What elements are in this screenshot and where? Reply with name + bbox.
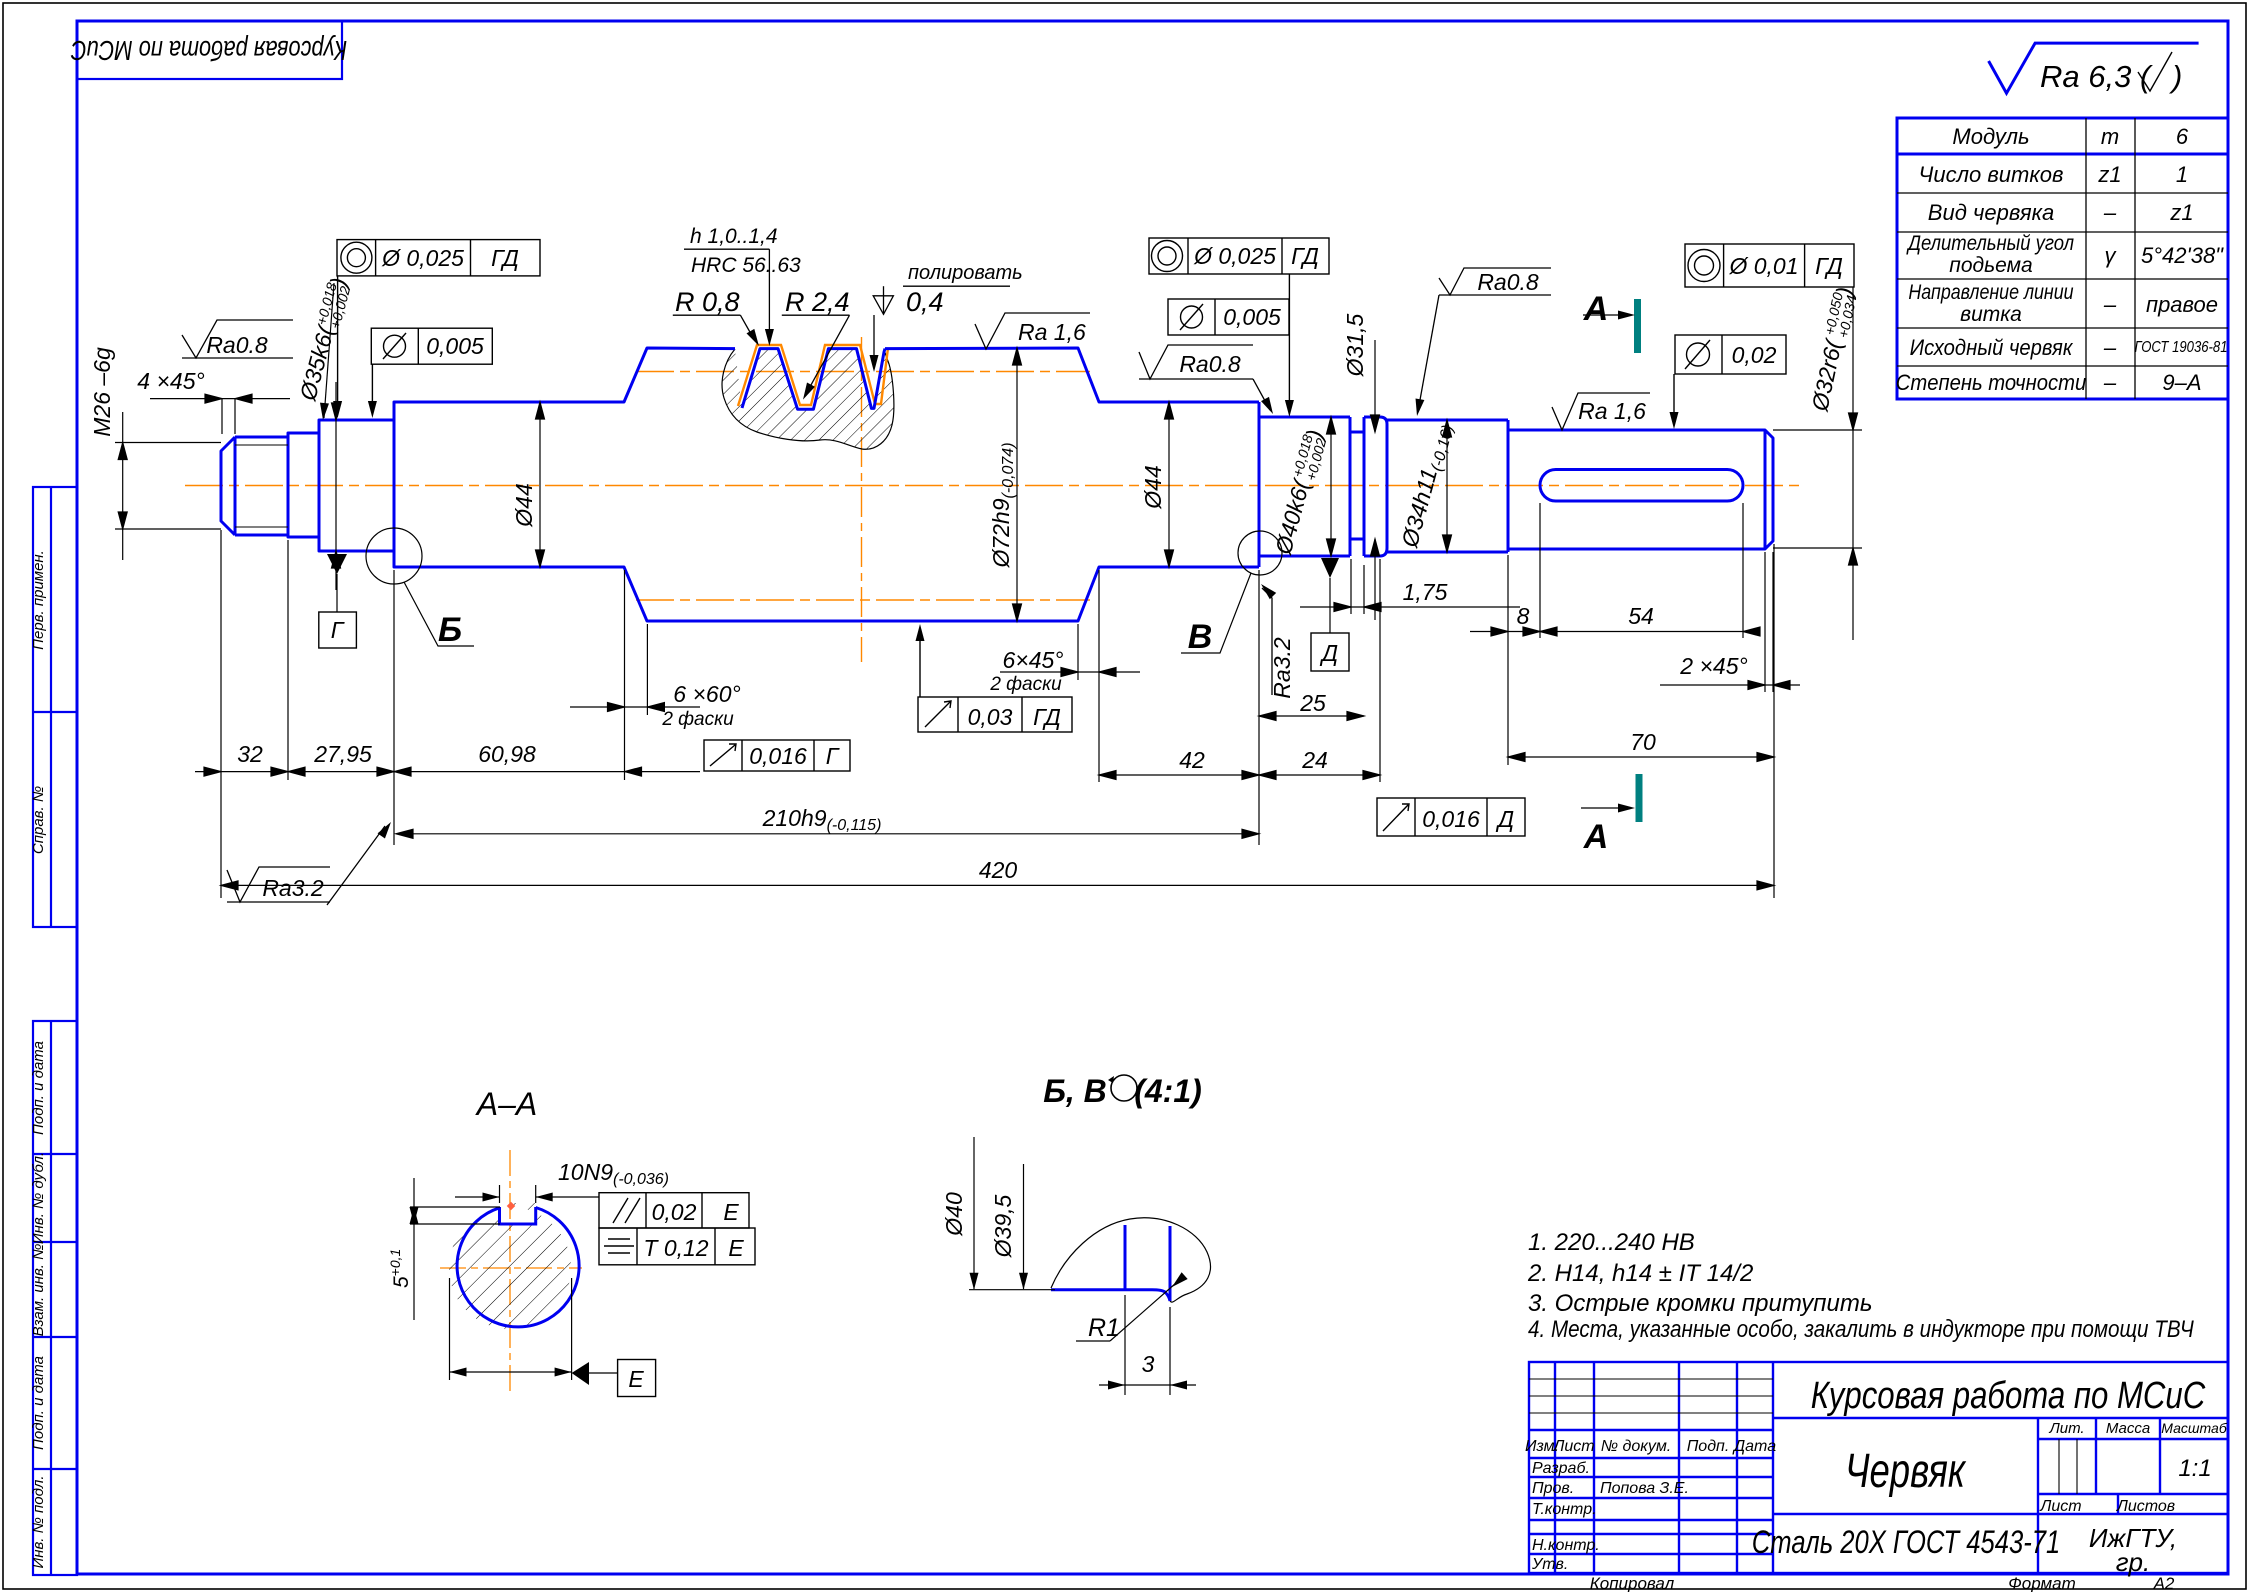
svg-text:2 фаски: 2 фаски	[661, 709, 734, 730]
thread callout h 1,0..1,4 / HRC 56..63	[684, 248, 769, 250]
svg-text:R1: R1	[1088, 1314, 1120, 1342]
worm thread profile	[742, 349, 885, 410]
svg-text:Ø40: Ø40	[941, 1192, 967, 1237]
svg-text:70: 70	[1630, 729, 1656, 755]
dia 44 #2 dim	[1168, 402, 1170, 567]
svg-text:А: А	[1583, 290, 1609, 328]
title block	[1525, 1362, 2228, 1592]
R 0,8 callout	[673, 314, 741, 316]
Ra0.8 #3 on 34h11	[1418, 268, 1551, 411]
dim 3	[1099, 1295, 1196, 1395]
svg-text:Ra 1,6: Ra 1,6	[1018, 319, 1086, 345]
svg-text:0,005: 0,005	[1223, 304, 1281, 330]
Ra0.8 #2 on 40k6	[1139, 345, 1270, 410]
svg-text:В: В	[1188, 618, 1213, 656]
dim row: 6x45 right chamfer at y=672	[1000, 671, 1140, 673]
dia 72h9 dim	[1016, 348, 1018, 621]
svg-text:–: –	[2103, 200, 2117, 225]
svg-text:Б: Б	[438, 611, 462, 649]
svg-text:z1: z1	[2097, 162, 2121, 187]
svg-text:Направление линии: Направление линии	[1908, 281, 2073, 305]
left margin stamp boxes	[33, 21, 342, 1575]
thread M26 end with chamfers	[221, 437, 235, 535]
stamp box labels	[30, 34, 347, 1568]
svg-text:0,03: 0,03	[968, 704, 1013, 730]
detail circle V (В)	[1238, 531, 1282, 575]
svg-text:правое: правое	[2146, 292, 2218, 317]
svg-text:Т 0,12: Т 0,12	[643, 1235, 708, 1261]
0,03 GD frame	[918, 628, 1072, 732]
detail circle B (Б)	[366, 528, 422, 584]
svg-text:Модуль: Модуль	[1952, 124, 2029, 149]
svg-text:–: –	[2103, 292, 2117, 317]
svg-text:1: 1	[2176, 162, 2188, 187]
svg-text:Взам. инв. №: Взам. инв. №	[30, 1244, 47, 1337]
svg-text:3: 3	[1142, 1351, 1155, 1377]
dim row: 210h9 at y=833.8	[396, 833, 1259, 835]
main worm shaft view	[185, 337, 1800, 662]
dia 32r6 dim at right	[1773, 429, 1862, 431]
svg-text:Степень точности: Степень точности	[1896, 371, 2087, 395]
svg-text:0,02: 0,02	[1732, 342, 1777, 368]
dim row: 6x60 at y=707	[570, 706, 700, 708]
svg-text:Г: Г	[331, 617, 345, 643]
svg-text:Т.контр.: Т.контр.	[1532, 1501, 1597, 1518]
svg-text:Б, В: Б, В	[1043, 1073, 1107, 1109]
tolerance frames	[599, 1193, 755, 1265]
svg-text:Ra3.2: Ra3.2	[262, 875, 324, 901]
svg-text:Лит.: Лит.	[2048, 1420, 2084, 1437]
svg-text:1. 220...240 НВ: 1. 220...240 НВ	[1528, 1229, 1695, 1256]
svg-text:Ø 0,01: Ø 0,01	[1728, 253, 1798, 279]
svg-text:Д: Д	[1319, 640, 1338, 666]
svg-text:Инв. № подл.: Инв. № подл.	[30, 1475, 47, 1568]
centerlines	[509, 1150, 511, 1392]
svg-text:Утв.: Утв.	[1531, 1556, 1568, 1573]
svg-text:Ra3.2: Ra3.2	[1269, 637, 1295, 699]
section view A-A	[387, 1086, 755, 1397]
dim row: 420 at y=885.4	[221, 884, 1774, 886]
top contour left part	[235, 348, 735, 437]
svg-text:Разраб.: Разраб.	[1532, 1460, 1590, 1477]
svg-text:Попова З.Е.: Попова З.Е.	[1600, 1480, 1689, 1497]
top-left reversed designation box	[77, 21, 342, 79]
dimension lines and arrows	[115, 287, 1862, 898]
svg-text:–: –	[2103, 335, 2117, 360]
parallel frame 0,02 on keyway	[1674, 335, 1786, 425]
svg-text:6: 6	[2176, 124, 2189, 149]
svg-text:27,95: 27,95	[313, 741, 372, 767]
svg-text:А–А: А–А	[475, 1086, 537, 1122]
svg-text:ГД: ГД	[1815, 253, 1843, 279]
svg-text:24: 24	[1301, 747, 1328, 773]
svg-text:ГД: ГД	[1033, 704, 1061, 730]
hardened-zone orange outline over thread profile	[738, 345, 888, 406]
svg-text:Масштаб: Масштаб	[2161, 1420, 2228, 1436]
svg-text:Ra 6,3 (: Ra 6,3 (	[2040, 59, 2153, 94]
Ra 1.6 on 72	[975, 313, 1090, 349]
svg-text:Ø 0,025: Ø 0,025	[381, 245, 464, 271]
svg-text:ГД: ГД	[1291, 243, 1319, 269]
detail bubble outline	[1051, 1218, 1210, 1302]
svg-text:3. Острые кромки притупить: 3. Острые кромки притупить	[1528, 1290, 1872, 1317]
M26 dim at left	[115, 442, 221, 444]
svg-text:m: m	[2101, 124, 2119, 149]
left margin stamp group 1: Перв. примен. / Справ. №	[33, 487, 77, 927]
cylindricity frame 0,005 #1	[371, 328, 492, 414]
svg-text:h 1,0..1,4: h 1,0..1,4	[690, 225, 778, 248]
4x45 chamfer dim at y=398.6	[221, 399, 223, 434]
svg-text:Ø39,5: Ø39,5	[990, 1194, 1016, 1258]
dia 31,5 dim (outside arrows)	[1374, 340, 1376, 432]
svg-text:ГОСТ 19036-81: ГОСТ 19036-81	[2134, 339, 2227, 356]
svg-text:А: А	[1583, 818, 1609, 856]
34h11 section	[1387, 419, 1508, 422]
svg-text:54: 54	[1628, 603, 1654, 629]
thread section hatch	[722, 349, 894, 449]
break line (thin) around thread local section	[722, 349, 894, 449]
svg-text:Перв. примен.: Перв. примен.	[30, 550, 47, 650]
svg-text:Е: Е	[728, 1235, 744, 1261]
svg-text:R 0,8: R 0,8	[675, 287, 740, 317]
svg-text:Ø44: Ø44	[511, 483, 537, 527]
datum D triangle under 40k6	[1321, 558, 1339, 578]
collar with rounded right corners	[1364, 417, 1387, 556]
svg-text:Делительный угол: Делительный угол	[1906, 232, 2074, 255]
general roughness mark Ra 6,3	[1989, 43, 2199, 94]
0,016 G frame	[704, 740, 850, 771]
svg-text:ГД: ГД	[491, 245, 519, 271]
svg-text:подьема: подьема	[1949, 254, 2032, 277]
svg-text:Ra0.8: Ra0.8	[206, 332, 268, 358]
dim row: 1,75 at y=607	[1300, 606, 1520, 608]
svg-text:–: –	[2103, 370, 2117, 395]
svg-text:Копировал: Копировал	[1590, 1574, 1675, 1592]
extension lines below shaft	[220, 530, 222, 898]
Ra3.2 bottom left with leader	[227, 826, 385, 905]
svg-text:Сталь 20Х ГОСТ 4543-71: Сталь 20Х ГОСТ 4543-71	[1752, 1525, 2060, 1560]
dia 39,5 dim	[1023, 1164, 1025, 1289]
Ra 6,3 corner mark	[1989, 43, 2199, 93]
svg-text:0,4: 0,4	[906, 287, 944, 317]
svg-text:Дата: Дата	[1732, 1438, 1776, 1455]
top contour right part	[885, 348, 1259, 402]
svg-text:Вид червяка: Вид червяка	[1928, 200, 2054, 225]
dims: 5+0.1 left	[410, 1178, 500, 1320]
thread root thin lines	[235, 444, 288, 446]
left margin stamp group 2	[33, 1021, 77, 1575]
svg-text:Червяк: Червяк	[1845, 1444, 1967, 1498]
svg-text:Справ. №: Справ. №	[30, 786, 47, 854]
svg-text:Д: Д	[1495, 806, 1514, 832]
position tolerance frame 0,025 GD #1	[337, 240, 540, 414]
detail view B,V (4:1)	[941, 1073, 1210, 1395]
svg-text:0,005: 0,005	[426, 333, 484, 359]
svg-text:Исходный червяк: Исходный червяк	[1910, 336, 2074, 360]
worm parameter table	[1896, 118, 2228, 399]
svg-text:420: 420	[979, 857, 1018, 883]
svg-text:М26 –6g: М26 –6g	[89, 347, 115, 437]
svg-text:1,75: 1,75	[1403, 579, 1448, 605]
shaft outline	[221, 348, 1773, 621]
dia 40 dim	[973, 1137, 975, 1289]
dim row: 8 / 54 at y=631	[1470, 631, 1743, 633]
worm pitch centerlines	[636, 371, 1090, 373]
svg-text:полировать: полировать	[908, 262, 1023, 284]
svg-text:Курсовая работа по МСиС: Курсовая работа по МСиС	[70, 34, 347, 65]
dim row: 70 at y=757	[1508, 756, 1774, 758]
svg-text:Подп. и дата: Подп. и дата	[30, 1041, 47, 1135]
Ra3.2 rotated near groove	[1262, 588, 1272, 695]
svg-text:0,016: 0,016	[749, 743, 807, 769]
dia 40k6 dim	[1330, 417, 1332, 556]
thin extension to dia dims	[969, 1289, 1055, 1291]
dim row: 25 at y=716	[1259, 715, 1364, 717]
svg-text:гр.: гр.	[2116, 1547, 2151, 1577]
dia 34h11 dim	[1446, 420, 1448, 552]
svg-text:Ø44: Ø44	[1140, 465, 1166, 509]
svg-text:Ra0.8: Ra0.8	[1477, 269, 1539, 295]
svg-text:Ra0.8: Ra0.8	[1179, 351, 1241, 377]
R 2,4 callout	[782, 314, 850, 316]
svg-text:4. Места, указанные особо, за: 4. Места, указанные особо, закалить в ин…	[1528, 1316, 2195, 1343]
svg-text:9–А: 9–А	[2162, 370, 2201, 395]
svg-text:Е: Е	[628, 1366, 644, 1392]
svg-text:№ докум.: № докум.	[1601, 1438, 1671, 1455]
svg-text:А2: А2	[2153, 1574, 2175, 1592]
svg-text:Подп. и дата: Подп. и дата	[30, 1356, 47, 1450]
svg-text:Курсовая работа по МСиС: Курсовая работа по МСиС	[1811, 1375, 2206, 1417]
svg-text:8: 8	[1517, 603, 1530, 629]
svg-text:Лист: Лист	[1552, 1438, 1594, 1455]
svg-text:R 2,4: R 2,4	[785, 287, 850, 317]
dia 44 #1 dim	[539, 402, 541, 567]
svg-text:6×45°: 6×45°	[1002, 647, 1063, 673]
position frame 0,025 GD #2	[1149, 238, 1329, 413]
dim row: 42 / 24 at y=775	[1099, 774, 1380, 776]
svg-text:5°42'38": 5°42'38"	[2141, 243, 2224, 268]
datum G triangle under 35k6	[327, 554, 347, 574]
0,016 D frame bottom	[1377, 798, 1525, 836]
svg-text:32: 32	[237, 741, 263, 767]
svg-text:42: 42	[1179, 747, 1205, 773]
svg-text:(4:1): (4:1)	[1134, 1073, 1202, 1109]
svg-text:Листов: Листов	[2116, 1498, 2175, 1515]
svg-text:2 ×45°: 2 ×45°	[1679, 653, 1747, 679]
circle outline (blue) with slot gap	[457, 1208, 579, 1327]
position frame 0,01 GD right	[1685, 244, 1854, 287]
svg-text:Ø 0,025: Ø 0,025	[1193, 243, 1276, 269]
svg-text:Формат: Формат	[2008, 1574, 2076, 1592]
Ra 1.6 on output end	[1552, 393, 1650, 430]
svg-text:Число витков: Число витков	[1919, 162, 2064, 187]
svg-text:6 ×60°: 6 ×60°	[673, 681, 740, 707]
keyway width dim 10N9	[455, 1185, 599, 1203]
verticals between sections	[287, 433, 290, 537]
svg-text:Подп.: Подп.	[1687, 1438, 1730, 1455]
dimension value texts	[89, 275, 1861, 883]
bottom contour	[1259, 555, 1350, 558]
technical notes	[1527, 1229, 2195, 1342]
svg-text:Г: Г	[826, 743, 840, 769]
dim row: 32 / 27,95 / 60,98 at y=771.6	[195, 771, 700, 773]
svg-text:1:1: 1:1	[2178, 1455, 2211, 1482]
dia 35k6 dim (vertical line with outside arrows)	[335, 382, 337, 590]
svg-text:витка: витка	[1960, 303, 2022, 326]
vertical centerline of worm	[861, 337, 863, 662]
svg-text:0,016: 0,016	[1422, 806, 1480, 832]
svg-text:0,02: 0,02	[652, 1199, 697, 1225]
svg-text:Ra 1,6: Ra 1,6	[1578, 398, 1646, 424]
svg-text:Н.контр.: Н.контр.	[1532, 1537, 1600, 1554]
svg-text:Пров.: Пров.	[1532, 1480, 1574, 1497]
svg-text:25: 25	[1299, 690, 1326, 716]
svg-text:Ø31,5: Ø31,5	[1342, 313, 1368, 377]
tolerance frames, surface symbols, datum callouts	[182, 225, 1854, 905]
dim row: 2x45 at y=685	[1660, 684, 1800, 686]
svg-text:60,98: 60,98	[478, 741, 536, 767]
svg-text:2 фаски: 2 фаски	[989, 674, 1062, 695]
svg-text:Е: Е	[723, 1199, 739, 1225]
svg-text:z1: z1	[2169, 200, 2193, 225]
svg-text:4 ×45°: 4 ×45°	[137, 368, 204, 394]
keyway slot on output end	[1540, 470, 1743, 502]
bottom dim with datum E	[450, 1278, 572, 1380]
cylindricity frame 0,005 #2	[1168, 299, 1289, 335]
section mark A upper	[1634, 299, 1641, 353]
svg-text:2. Н14, h14 ± IT 14/2: 2. Н14, h14 ± IT 14/2	[1527, 1260, 1753, 1287]
svg-text:HRC 56..63: HRC 56..63	[691, 254, 801, 277]
svg-text:Лист: Лист	[2039, 1498, 2081, 1515]
output 32r6 with end chamfer	[1508, 430, 1773, 549]
blue geometry of detail	[1051, 1225, 1170, 1301]
svg-text:Инв. № дубл.: Инв. № дубл.	[30, 1152, 47, 1244]
surface finish Ra0.8 top-left	[182, 320, 293, 358]
main centerline	[185, 485, 1800, 487]
svg-text:Масса: Масса	[2106, 1420, 2150, 1437]
section mark A lower	[1636, 774, 1643, 822]
